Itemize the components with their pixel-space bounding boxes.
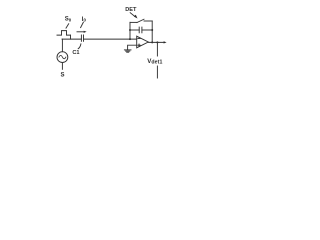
wire (op-amp + input to ground) (128, 45, 137, 49)
wire (pulse symbol to main wire) (70, 35, 72, 39)
ground (124, 50, 131, 52)
ac source S (57, 39, 68, 69)
node (right vertical / output wire) (151, 41, 153, 43)
leader line C1 (78, 44, 81, 49)
op-amp U1 (137, 36, 149, 48)
svg-text:S: S (61, 72, 65, 78)
svg-text:C1: C1 (72, 50, 79, 56)
svg-text:S0: S0 (65, 17, 72, 23)
leader line S0 (66, 24, 69, 28)
svg-text:I0: I0 (82, 17, 87, 23)
wire (feedback right vertical) (151, 21, 153, 42)
svg-text:DET: DET (125, 7, 137, 13)
leader line I0 (81, 22, 84, 27)
wire (Vdet1 tap, lower part) (156, 66, 158, 78)
node (left vertical / capacitor branch) (129, 29, 131, 31)
current arrow I0 (77, 31, 87, 33)
capacitor C1 (81, 35, 83, 41)
feedback capacitor (130, 27, 152, 33)
node (output / Vdet1 tap) (156, 41, 158, 43)
wire (main horizontal: C1 to op-amp inverting input) (84, 38, 137, 40)
wire (feedback left vertical) (129, 22, 131, 39)
output wire with arrow (148, 41, 166, 43)
pulse waveform symbol (signal of source S) (57, 31, 71, 35)
svg-text:Vdet1: Vdet1 (147, 58, 162, 66)
wire (main horizontal: source corner to C1) (62, 38, 81, 40)
wire (Vdet1 tap, upper part) (156, 42, 158, 56)
DET arrow (130, 13, 137, 19)
switch (DET reset switch) (130, 19, 152, 22)
node (left vertical / main wire) (129, 38, 131, 40)
node (right vertical / capacitor branch) (151, 29, 153, 31)
